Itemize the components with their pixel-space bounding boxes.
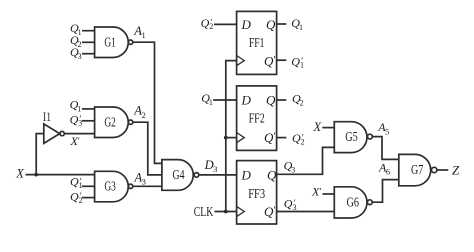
- wire A5 from G5 output to G7 top input: [372, 137, 398, 160]
- node Q1 label (FF2 D input): [201, 91, 213, 107]
- svg-text:D: D: [241, 167, 252, 182]
- label G2: [104, 115, 116, 130]
- svg-text:Q′: Q′: [264, 204, 276, 219]
- svg-text:G2: G2: [104, 115, 116, 130]
- svg-text:I1: I1: [43, 110, 51, 124]
- wire G1 input 3: [82, 53, 95, 55]
- wire X horizontal to G3 top input: [26, 174, 95, 176]
- wire Q'3 from FF3 Q' output to G6 bottom input: [277, 211, 335, 213]
- svg-text:Q: Q: [266, 93, 276, 108]
- node Q'2 label (FF1 D input): [201, 16, 214, 31]
- wire G3 input 3: [82, 197, 95, 199]
- svg-text:Q2: Q2: [292, 91, 304, 107]
- svg-text:FF2: FF2: [249, 112, 265, 127]
- svg-text:Q′1: Q′1: [291, 54, 304, 69]
- gate G1 (NAND): [95, 27, 129, 58]
- node Q1 label (G1 input 1): [70, 21, 82, 37]
- FF2 clock triangle: [237, 133, 245, 143]
- label I1: [43, 110, 51, 124]
- node Q1 label (FF1 Q output): [291, 16, 303, 32]
- svg-text:Q′2: Q′2: [292, 131, 305, 146]
- wire G2 input 2: [82, 120, 95, 122]
- node Z label: [452, 163, 460, 178]
- svg-text:A5: A5: [377, 120, 389, 136]
- wire Q'2 to FF1 D input: [214, 23, 237, 25]
- svg-text:Q′2: Q′2: [201, 16, 214, 31]
- svg-text:D3: D3: [204, 158, 218, 174]
- svg-text:D: D: [241, 93, 252, 108]
- label G3: [104, 180, 116, 195]
- svg-text:CLK: CLK: [194, 205, 214, 220]
- svg-text:FF3: FF3: [248, 187, 265, 202]
- wire A1 from G1 output to G4 top input: [133, 42, 162, 163]
- svg-text:G5: G5: [345, 130, 358, 145]
- svg-text:A3: A3: [134, 170, 146, 186]
- label CLK: [194, 205, 214, 220]
- svg-text:FF1: FF1: [249, 36, 265, 51]
- wire FF2 Q' output stub: [277, 137, 287, 139]
- wire G2 input 1: [82, 108, 95, 110]
- node Q2 label (FF2 Q output): [292, 91, 304, 107]
- node Q'3 label (G2 input 2): [70, 112, 83, 127]
- flip-flop FF2: [237, 86, 277, 150]
- node CLK junction at FF2: [224, 136, 228, 140]
- svg-text:A1: A1: [133, 24, 145, 40]
- node X' label (G6 input): [311, 184, 321, 198]
- node X input label: [15, 167, 25, 181]
- svg-text:X: X: [313, 120, 323, 134]
- wire A6 from G6 output to G7 bottom input: [372, 180, 399, 203]
- wire CLK riser to FF1 clock: [226, 61, 237, 212]
- svg-text:A6: A6: [378, 161, 390, 177]
- svg-text:Q1: Q1: [70, 98, 82, 114]
- node D3 label: [204, 158, 218, 174]
- svg-text:X′: X′: [311, 184, 321, 198]
- svg-text:Q′1: Q′1: [70, 175, 83, 190]
- svg-text:Q1: Q1: [201, 91, 213, 107]
- wire Q3 from FF3 Q output to G5 bottom input: [277, 147, 335, 174]
- wire A3 from G3 output to G4 bottom input: [133, 185, 162, 187]
- wire A2 from G2 output to G4 middle input: [133, 122, 162, 175]
- node A2 label: [133, 104, 145, 120]
- svg-text:Q: Q: [267, 167, 277, 182]
- wire CLK branch to FF2 clock: [226, 137, 237, 139]
- node Q'2 label (FF2 Q' output): [292, 131, 305, 146]
- svg-text:Q1: Q1: [291, 16, 303, 32]
- svg-text:Q′: Q′: [264, 54, 276, 69]
- label G1: [104, 35, 116, 50]
- svg-text:Q′2: Q′2: [70, 189, 83, 204]
- node Q'1 label (G3 input 2): [70, 175, 83, 190]
- wire X to G5 top input: [322, 127, 334, 129]
- node A6 label: [378, 161, 390, 177]
- wire X riser to inverter I1 input: [36, 134, 44, 175]
- FF3 clock triangle: [237, 206, 245, 216]
- wire Z output: [437, 169, 448, 171]
- flip-flop FF1: [237, 11, 277, 74]
- svg-text:X: X: [15, 167, 25, 181]
- svg-text:X′: X′: [70, 134, 80, 148]
- svg-text:G6: G6: [347, 196, 360, 211]
- FF1 clock triangle: [237, 56, 245, 66]
- svg-text:G4: G4: [173, 168, 185, 183]
- svg-text:Z: Z: [452, 163, 460, 178]
- node A5 label: [377, 120, 389, 136]
- gate G7 (NAND): [399, 154, 431, 185]
- svg-text:G3: G3: [104, 180, 116, 195]
- gate G3 (NAND): [95, 171, 129, 202]
- gate G4 (NAND): [162, 160, 193, 191]
- svg-text:Q3: Q3: [284, 159, 296, 175]
- node X junction dot: [34, 173, 38, 177]
- flip-flop FF3: [237, 161, 277, 224]
- svg-text:Q′3: Q′3: [70, 112, 83, 127]
- node Q1 label (G2 input 1): [70, 98, 82, 114]
- node CLK junction at FF3: [224, 210, 228, 214]
- wire Q1 to FF2 D input: [213, 99, 236, 101]
- node Q3 label (G1 input 3): [70, 45, 82, 61]
- label G6: [347, 196, 360, 211]
- svg-text:D: D: [241, 17, 252, 32]
- svg-text:Q: Q: [266, 17, 276, 32]
- wire FF2 Q output stub: [277, 99, 287, 101]
- label G5: [345, 130, 358, 145]
- node X label (G5 input): [313, 120, 323, 134]
- wire D3 from G4 output to FF3 D input: [199, 174, 237, 176]
- inverter I1: [44, 124, 60, 143]
- svg-text:G7: G7: [411, 163, 423, 178]
- gate G2 (NAND): [95, 107, 129, 138]
- FF2 pin labels: [241, 93, 277, 145]
- wire X' to G6 top input: [323, 193, 335, 195]
- node Q3 label (FF3 Q output): [284, 159, 296, 175]
- wire FF1 Q' output stub: [277, 59, 287, 61]
- node Q'2 label (G3 input 3): [70, 189, 83, 204]
- wire G1 input 1: [82, 30, 95, 32]
- node Q'1 label (FF1 Q' output): [291, 54, 304, 69]
- gate G5 (NAND): [334, 122, 367, 153]
- label G4: [173, 168, 185, 183]
- wire X' from inverter to G2 bottom input: [64, 133, 94, 135]
- svg-text:Q′: Q′: [264, 130, 276, 145]
- wire FF1 Q output stub: [277, 23, 287, 25]
- node X' label at inverter output: [70, 134, 80, 148]
- svg-text:G1: G1: [104, 35, 116, 50]
- wire G1 input 2: [82, 41, 95, 43]
- FF1 pin labels: [241, 17, 277, 69]
- node A3 label: [134, 170, 146, 186]
- node Q2 label (G1 input 2): [70, 33, 82, 49]
- wire G3 input 2: [82, 185, 95, 187]
- wire CLK to FF3 clock: [215, 211, 237, 213]
- FF3 pin labels: [241, 167, 278, 219]
- label G7: [411, 163, 423, 178]
- svg-text:Q′3: Q′3: [284, 196, 297, 211]
- node Q'3 label (FF3 Q' output): [284, 196, 297, 211]
- svg-text:A2: A2: [133, 104, 145, 120]
- node A1 label: [133, 24, 145, 40]
- gate G6 (NAND): [334, 187, 367, 218]
